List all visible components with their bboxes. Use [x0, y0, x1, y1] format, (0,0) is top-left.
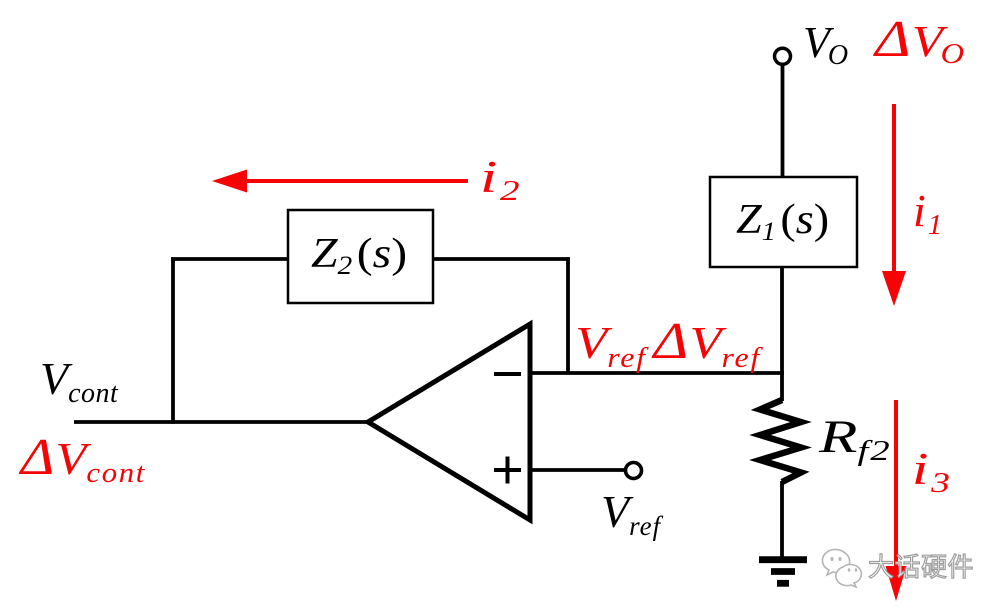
red label i2	[480, 151, 520, 207]
op-amp U1 triangle	[368, 324, 530, 520]
resistor Rf2 zigzag	[760, 400, 801, 482]
wire: vertical drop to minus input wire	[566, 257, 570, 373]
svg-text:Z2(s): Z2(s)	[311, 230, 407, 281]
resistor Z2 box	[288, 210, 433, 303]
red label delta VO	[873, 11, 964, 70]
svg-text:Rf2: Rf2	[818, 411, 892, 467]
red label i3	[912, 443, 950, 499]
red current arrow i1	[882, 104, 906, 306]
op-amp plus sign	[494, 457, 521, 484]
svg-text:i1: i1	[913, 185, 942, 241]
svg-text:Z1(s): Z1(s)	[736, 196, 829, 246]
svg-text:ΔVO: ΔVO	[873, 11, 964, 70]
label Z2(s)	[311, 230, 407, 281]
wire: main input wire from Vcont to op-amp apex	[74, 420, 372, 424]
svg-text:Vcont: Vcont	[40, 353, 119, 409]
svg-text:Vref: Vref	[601, 486, 664, 541]
red label Vref delta Vref at node	[575, 312, 763, 373]
wire: plus input to Vref terminal	[530, 468, 625, 472]
red label delta Vcont	[19, 427, 146, 488]
wire: Z2 right to drop	[433, 257, 570, 261]
wire: riser to Z2 left	[171, 257, 288, 261]
wire: op-amp minus input to node	[530, 371, 784, 375]
impedance Z1 box	[710, 177, 857, 267]
wire: feedback riser vertical	[171, 257, 175, 424]
ground symbol	[759, 560, 807, 584]
op-amp minus sign	[494, 372, 521, 376]
svg-text:i2: i2	[480, 151, 520, 207]
red current arrow i2	[212, 170, 468, 193]
wire: Z1 bottom through node to resistor	[780, 267, 784, 401]
svg-text:i3: i3	[912, 443, 950, 499]
terminal circle VO	[775, 48, 791, 64]
wire: resistor to ground	[780, 481, 784, 557]
watermark wechat icon	[822, 549, 861, 587]
red current arrow i3	[886, 400, 907, 601]
svg-text:VO: VO	[803, 18, 848, 71]
label Z1(s)	[736, 196, 829, 246]
terminal circle Vref	[626, 463, 642, 479]
svg-text:ΔVcont: ΔVcont	[19, 427, 146, 488]
label Rf2	[818, 411, 892, 467]
svg-text:大话硬件: 大话硬件	[868, 553, 974, 582]
wire: VO terminal down to Z1	[781, 66, 785, 178]
svg-text:VrefΔVref: VrefΔVref	[575, 312, 763, 373]
